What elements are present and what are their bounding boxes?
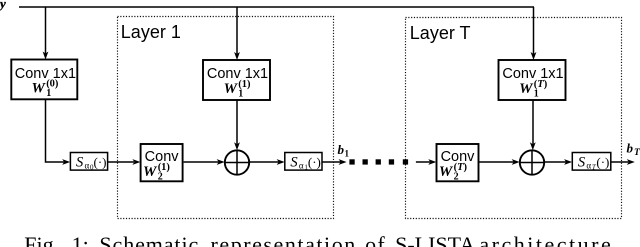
svg-text:S-LISTA: S-LISTA (395, 232, 475, 247)
wire arrow from W1(T) into adder (532, 100, 534, 145)
svg-text:1: 1 (46, 88, 51, 99)
svg-text:W: W (32, 81, 47, 97)
svg-text:Schematic: Schematic (99, 232, 199, 247)
wire S_a0 to W2(1) (108, 161, 134, 163)
node b1 label (338, 142, 350, 159)
wire top bus from y to Layer T drop (19, 6, 534, 8)
svg-text:Layer 1: Layer 1 (121, 22, 181, 42)
svg-text:α: α (586, 161, 591, 171)
svg-text:(1): (1) (158, 162, 171, 173)
svg-text:S: S (290, 155, 298, 171)
block S_alpha1 (285, 153, 322, 171)
wire arrow from W1(1) into adder (236, 100, 238, 145)
wire from W1(0) down and right to S_a0 (46, 99, 65, 162)
svg-text:T: T (634, 148, 640, 158)
svg-text:(1): (1) (238, 79, 251, 90)
wire adder to S_alpha1 (249, 161, 278, 163)
wire W2(T) to adder (479, 161, 514, 163)
wire S_alphaT out with arrow (bT) (611, 161, 629, 163)
wire adder to S_alphaT (544, 161, 566, 163)
svg-text:1: 1 (238, 89, 243, 100)
svg-text:W: W (519, 81, 534, 97)
wire drop to Layer 1 W1(1) conv box (236, 7, 238, 55)
svg-text:(0): (0) (46, 79, 59, 90)
conv block W2(T) (437, 144, 479, 181)
conv block W1(T) (499, 60, 566, 100)
layer box Layer 1 (dashed) (118, 17, 334, 219)
svg-text:W: W (439, 164, 454, 180)
svg-text:Fig.: Fig. (24, 232, 59, 247)
svg-text:S: S (76, 155, 84, 171)
adder (sum junction) Layer T (520, 150, 544, 174)
svg-text:b: b (627, 141, 634, 156)
conv block W1(0) (11, 60, 77, 100)
svg-text:W: W (143, 164, 158, 180)
svg-text:2: 2 (454, 172, 459, 183)
svg-text:α: α (299, 161, 304, 171)
block S_alpha0 (70, 153, 107, 171)
svg-text:(T): (T) (454, 162, 468, 173)
svg-text:(·): (·) (94, 155, 107, 170)
conv block W2(1) (141, 144, 183, 181)
svg-text:(T): (T) (534, 79, 548, 90)
wire W2(1) to adder (184, 161, 219, 163)
svg-text:(·): (·) (308, 155, 321, 170)
svg-text:of: of (365, 232, 386, 247)
wire into W2(T) (416, 161, 430, 163)
svg-text:S: S (578, 155, 586, 171)
layer box Layer T (dashed) (406, 18, 622, 219)
svg-text:W: W (224, 81, 239, 97)
svg-text:Layer T: Layer T (410, 23, 471, 43)
svg-text:(·): (·) (596, 155, 609, 170)
svg-text:1: 1 (534, 89, 539, 100)
svg-text:1:: 1: (72, 232, 89, 247)
svg-text:architecture.: architecture. (479, 232, 621, 247)
wire drop to Layer T W1(T) conv box (533, 7, 535, 55)
svg-text:b: b (338, 142, 345, 157)
svg-text:representation: representation (211, 232, 357, 247)
adder (sum junction) Layer 1 (225, 150, 249, 174)
block S_alphaT (572, 153, 611, 171)
node bT label (627, 141, 640, 159)
svg-text:2: 2 (158, 172, 163, 183)
svg-text:α: α (85, 161, 90, 171)
wire drop to W1(0) conv box (45, 7, 47, 54)
dotted continuation squares (349, 159, 354, 164)
svg-text:1: 1 (345, 148, 350, 158)
caption: Fig. 1 (24, 232, 621, 247)
conv block W1(1) (203, 60, 270, 100)
wire S_alpha1 out with arrow (b1) (322, 161, 341, 163)
svg-text:y: y (0, 0, 6, 11)
